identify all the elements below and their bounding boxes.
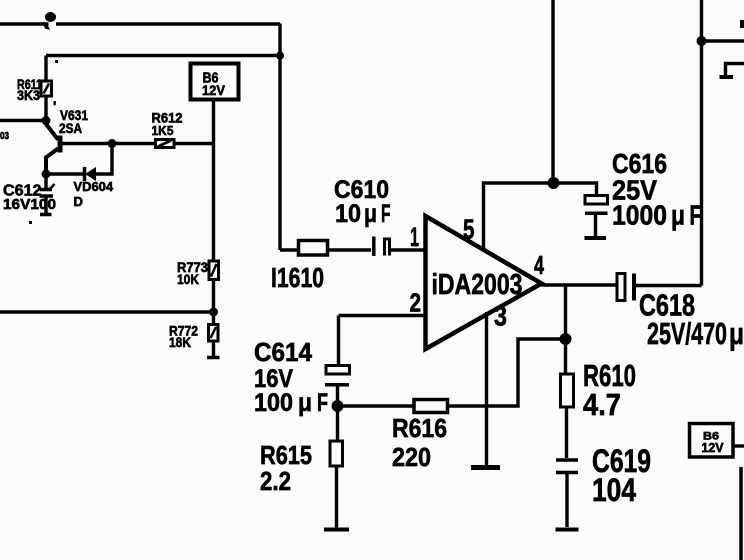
svg-text:C614: C614 bbox=[254, 337, 313, 367]
svg-text:μ: μ bbox=[298, 389, 312, 417]
svg-text:2: 2 bbox=[410, 288, 422, 318]
wire supply drop bbox=[551, 0, 554, 183]
ground C619 bbox=[556, 528, 579, 532]
capacitor C619 bbox=[556, 407, 578, 527]
pin 1 bbox=[410, 222, 419, 252]
label R610 value bbox=[583, 358, 636, 422]
label R612 value bbox=[152, 110, 183, 139]
wire diode branch right bbox=[96, 144, 112, 175]
resistor R611 bbox=[41, 81, 52, 96]
svg-text:5: 5 bbox=[463, 214, 475, 245]
node C614 junction bbox=[332, 400, 344, 412]
svg-text:': ' bbox=[53, 98, 56, 114]
pin 4 bbox=[534, 250, 544, 280]
wire input vertical bbox=[278, 56, 281, 251]
svg-text:4: 4 bbox=[534, 250, 544, 280]
svg-text:1000: 1000 bbox=[612, 200, 667, 231]
node supply junction bbox=[548, 177, 560, 189]
label V631 2SA bbox=[53, 98, 88, 136]
node speck 2 bbox=[55, 60, 58, 63]
wire bottom right rail bbox=[739, 467, 743, 560]
svg-text:F: F bbox=[690, 200, 702, 231]
resistor R772 bbox=[209, 312, 219, 341]
svg-text:μ: μ bbox=[671, 200, 685, 231]
svg-text:03: 03 bbox=[0, 131, 9, 142]
svg-text:2SA: 2SA bbox=[59, 120, 82, 136]
wire R612 to rail bbox=[174, 142, 214, 145]
label R615 value bbox=[260, 440, 312, 496]
wire output drop bbox=[564, 285, 567, 339]
op-amp U1 TDA2003 bbox=[426, 216, 542, 349]
wire supply to C616 bbox=[554, 183, 597, 195]
svg-text:I1610: I1610 bbox=[271, 262, 324, 293]
wire I1610 to C610 bbox=[328, 248, 372, 251]
label net 03 bbox=[0, 131, 9, 142]
wire B6 rail bbox=[212, 98, 215, 261]
svg-text:18K: 18K bbox=[169, 334, 191, 350]
svg-text:10K: 10K bbox=[177, 271, 199, 287]
ground C612 bbox=[40, 213, 52, 217]
wire C618 to rail bbox=[636, 284, 702, 287]
svg-text:100: 100 bbox=[254, 389, 293, 417]
wire pin5 bbox=[484, 183, 554, 249]
power box B6 12V bottom bbox=[690, 424, 734, 458]
wire top rail left bbox=[0, 22, 280, 25]
label C614 value bbox=[254, 337, 328, 417]
wire output bbox=[542, 283, 618, 286]
svg-text:220: 220 bbox=[392, 442, 431, 472]
resistor R610 bbox=[561, 339, 574, 407]
svg-text:104: 104 bbox=[592, 472, 636, 508]
svg-text:12V: 12V bbox=[702, 440, 724, 455]
wire divider tap left bbox=[0, 310, 214, 313]
label I1610 bbox=[271, 262, 324, 293]
node collector junction bbox=[42, 170, 51, 179]
label R611 value bbox=[17, 76, 42, 103]
wire feedback right bbox=[448, 339, 566, 406]
node divider junction bbox=[209, 308, 218, 317]
svg-text:1: 1 bbox=[410, 222, 419, 252]
svg-text:F: F bbox=[317, 389, 328, 417]
label VD604 D bbox=[74, 179, 114, 209]
resistor R773 bbox=[209, 261, 219, 280]
ground R615 bbox=[324, 466, 349, 530]
node base junction bbox=[42, 116, 51, 125]
resistor I1610 bbox=[280, 241, 328, 256]
label C616 value bbox=[612, 148, 702, 231]
resistor R612 bbox=[156, 140, 175, 148]
wire emitter horizontal bbox=[62, 142, 155, 145]
capacitor C610 bbox=[374, 237, 390, 257]
pin 5 bbox=[463, 214, 475, 245]
wire R611 to base node bbox=[44, 96, 47, 121]
svg-text:12V: 12V bbox=[202, 82, 226, 98]
svg-text:iDA2003: iDA2003 bbox=[432, 269, 523, 301]
svg-text:VD604: VD604 bbox=[74, 179, 114, 194]
wire C610 to pin1 bbox=[390, 248, 426, 251]
wire top rail drop bbox=[278, 24, 281, 56]
connector top right bbox=[720, 64, 744, 78]
capacitor C612 bbox=[40, 174, 55, 213]
node right rail junction bbox=[697, 36, 707, 46]
svg-text:3: 3 bbox=[494, 301, 507, 332]
svg-text:2.2: 2.2 bbox=[260, 466, 291, 496]
label iDA2003 bbox=[432, 269, 523, 301]
node emitter junction bbox=[108, 139, 117, 148]
wire right rail tap bbox=[702, 39, 744, 42]
node speck 1 bbox=[29, 221, 32, 224]
wire diode branch left bbox=[46, 172, 84, 175]
pin 3 bbox=[494, 301, 507, 332]
svg-text:μ: μ bbox=[729, 316, 744, 351]
svg-text:R616: R616 bbox=[392, 413, 447, 443]
capacitor C618 bbox=[617, 274, 636, 301]
label R772 value bbox=[169, 323, 198, 351]
label C618 value bbox=[639, 288, 744, 352]
wire feedback left bbox=[338, 404, 415, 407]
node edge mark bbox=[740, 20, 744, 28]
capacitor C616 bbox=[585, 196, 608, 237]
svg-text:μ: μ bbox=[364, 200, 377, 228]
node junction blob top-left bbox=[43, 12, 57, 30]
svg-text:F: F bbox=[381, 200, 391, 228]
ground pin3 bbox=[471, 465, 500, 470]
ground C616 bbox=[585, 236, 607, 240]
ground R772 bbox=[207, 341, 220, 358]
label C619 value bbox=[592, 443, 651, 508]
wire base feed from left bbox=[0, 119, 46, 122]
transistor V631 bbox=[46, 121, 63, 175]
svg-text:1K5: 1K5 bbox=[152, 123, 174, 138]
wire R773 to node bbox=[212, 280, 215, 313]
svg-text:16V100: 16V100 bbox=[3, 196, 56, 213]
wire second rail bbox=[46, 54, 280, 57]
label R773 value bbox=[177, 259, 208, 287]
wire left rail upper bbox=[44, 56, 47, 82]
svg-text:3K3: 3K3 bbox=[17, 87, 40, 103]
power box B6 12V top bbox=[191, 64, 239, 100]
svg-text:25V/470: 25V/470 bbox=[647, 316, 727, 351]
capacitor C614 bbox=[325, 366, 350, 402]
label C612 value bbox=[3, 183, 56, 214]
svg-text:10: 10 bbox=[335, 200, 361, 228]
diode VD604 bbox=[85, 167, 97, 181]
node input junction bbox=[276, 52, 284, 60]
svg-text:4.7: 4.7 bbox=[583, 387, 621, 422]
wire pin3 bbox=[485, 312, 488, 465]
wire pin2 bbox=[339, 316, 426, 365]
svg-text:D: D bbox=[74, 194, 83, 209]
label R616 value bbox=[392, 413, 447, 472]
pin 2 bbox=[410, 288, 422, 318]
wire B6 bottom tap bbox=[733, 444, 744, 447]
resistor R615 bbox=[330, 406, 343, 466]
resistor R616 bbox=[414, 400, 448, 413]
label C610 value bbox=[334, 176, 391, 228]
wire right rail bbox=[700, 0, 703, 286]
node output junction bbox=[560, 333, 572, 345]
